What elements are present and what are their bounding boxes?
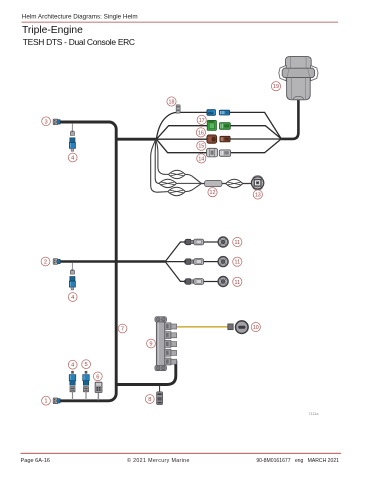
svg-text:11: 11	[235, 260, 241, 266]
svg-text:11: 11	[235, 240, 241, 246]
svg-text:90-8M0161677 eng MARCH 202: 90-8M0161677 eng MARCH 2021	[256, 458, 339, 464]
svg-text:10: 10	[253, 325, 259, 331]
svg-text:Helm Architecture Diagrams: Si: Helm Architecture Diagrams: Single Helm	[22, 14, 138, 21]
svg-text:15: 15	[198, 144, 204, 150]
svg-text:17: 17	[199, 118, 205, 124]
svg-text:7: 7	[121, 327, 124, 333]
svg-text:11: 11	[235, 280, 241, 286]
svg-text:2: 2	[44, 260, 47, 266]
svg-text:© 2021 Mercury Marine: © 2021 Mercury Marine	[127, 457, 190, 464]
svg-text:12: 12	[210, 190, 216, 196]
svg-text:9: 9	[149, 342, 152, 348]
svg-text:4: 4	[71, 295, 74, 301]
svg-text:5: 5	[85, 362, 88, 368]
svg-text:6: 6	[96, 374, 99, 380]
svg-text:7111a: 7111a	[309, 412, 320, 416]
svg-text:Page 6A-16: Page 6A-16	[21, 458, 51, 464]
svg-text:16: 16	[198, 130, 204, 136]
svg-text:18: 18	[169, 100, 175, 106]
svg-text:TESH DTS - Dual Console ERC: TESH DTS - Dual Console ERC	[23, 37, 135, 47]
svg-text:1: 1	[44, 399, 47, 405]
svg-text:8: 8	[148, 397, 151, 403]
svg-text:4: 4	[71, 363, 74, 369]
svg-text:19: 19	[273, 84, 279, 90]
svg-text:Triple-Engine: Triple-Engine	[22, 25, 83, 36]
svg-text:4: 4	[71, 156, 74, 162]
svg-text:14: 14	[198, 156, 204, 162]
svg-text:13: 13	[255, 193, 261, 199]
svg-text:3: 3	[45, 119, 48, 125]
